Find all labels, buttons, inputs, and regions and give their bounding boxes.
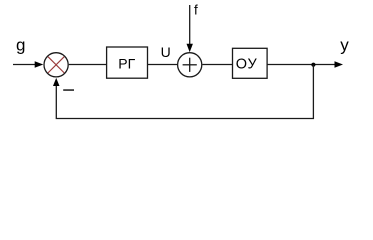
- svg-text:ОУ: ОУ: [236, 56, 258, 72]
- wire f input (disturbance): [187, 5, 193, 52]
- wire g input: [13, 61, 43, 67]
- wire output y: [267, 61, 343, 68]
- junction dot on output wire: [311, 63, 315, 67]
- wire feedback path: [53, 65, 313, 119]
- svg-text:g: g: [16, 36, 25, 55]
- wire RG to summing junction S2: [148, 64, 178, 66]
- block РГ (regulator): [107, 47, 148, 78]
- minus sign at S1 feedback input: [63, 89, 74, 91]
- node f (label): [194, 2, 198, 17]
- svg-text:у: у: [340, 35, 349, 54]
- node g (input label): [16, 36, 25, 55]
- block ОУ (controlled object): [233, 48, 268, 78]
- wire S1 to block RG: [69, 64, 107, 66]
- node у (output label): [340, 35, 349, 54]
- svg-text:U: U: [161, 44, 171, 60]
- wire S2 to block OU: [202, 64, 232, 66]
- summing junction S2 (adder): [178, 53, 202, 77]
- svg-text:f: f: [194, 2, 198, 17]
- summing junction S1 (comparator): [44, 53, 68, 77]
- svg-text:РГ: РГ: [118, 56, 135, 72]
- node U (label): [161, 44, 171, 60]
